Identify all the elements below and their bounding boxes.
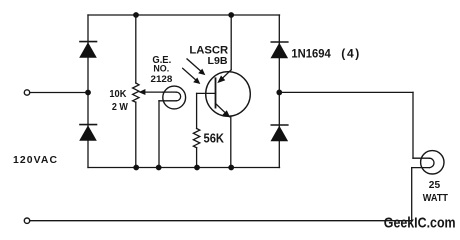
- junction dot LASCR cathode bottom: [228, 165, 234, 171]
- svg-text:56K: 56K: [204, 132, 225, 146]
- wire top DC rail: [88, 14, 280, 16]
- label 10K 2W: [109, 88, 128, 113]
- node AC line 1 junction: [85, 90, 91, 96]
- lamp DS2 25 WATT: [412, 151, 444, 174]
- wire lamp DS2 to bottom rail: [411, 168, 413, 221]
- svg-text:25: 25: [429, 180, 441, 191]
- diode D1 1N1694 top-left: [79, 42, 97, 58]
- svg-text:L9B: L9B: [208, 56, 228, 67]
- potentiometer wiper arrow: [139, 89, 164, 95]
- diode D4 1N1694 bottom-right: [271, 125, 289, 141]
- junction dot potentiometer bottom: [133, 165, 139, 171]
- wire potentiometer top: [135, 15, 137, 83]
- wire LASCR cathode down: [230, 117, 232, 168]
- diode D2 1N1694 bottom-left: [79, 125, 97, 141]
- svg-text:2 W: 2 W: [112, 101, 128, 113]
- wire right branch: [278, 15, 280, 168]
- label 1N1694 (4): [291, 46, 359, 60]
- wire left branch: [87, 15, 89, 168]
- svg-text:1N1694: 1N1694: [291, 46, 331, 60]
- svg-text:(4): (4): [341, 46, 359, 60]
- light arrow 1: [187, 59, 205, 75]
- wire LASCR gate lead: [197, 92, 216, 94]
- wire lamp DS1 return: [158, 101, 160, 168]
- lamp DS1 G.E. No. 2128: [159, 86, 186, 109]
- junction dot potentiometer top: [133, 12, 139, 18]
- potentiometer R1 10K 2W body: [133, 83, 139, 102]
- svg-text:GeekIC.com: GeekIC.com: [384, 215, 456, 232]
- junction dot LASCR anode top: [228, 12, 234, 18]
- label 25 WATT: [423, 180, 449, 204]
- svg-text:WATT: WATT: [423, 193, 449, 204]
- resistor R2 56K body: [193, 129, 199, 148]
- label LASCR L9B: [189, 45, 228, 67]
- svg-text:120VAC: 120VAC: [13, 155, 57, 166]
- terminal AC line 1: [24, 90, 29, 95]
- junction dot 56K bottom: [194, 165, 200, 171]
- wire load feed vertical: [412, 92, 414, 158]
- node AC line 2 junction: [276, 90, 282, 96]
- junction dot lamp DS1 return: [156, 165, 162, 171]
- LASCR Q1 L9B: [206, 70, 251, 118]
- svg-text:10K: 10K: [109, 88, 126, 100]
- wire potentiometer bottom: [135, 102, 137, 167]
- svg-text:LASCR: LASCR: [189, 45, 228, 57]
- wire load feed horizontal: [279, 91, 413, 93]
- diode D3 1N1694 top-right: [271, 42, 289, 58]
- wire LASCR anode feed: [230, 15, 232, 70]
- wire bottom DC rail: [88, 167, 280, 169]
- terminal AC line 2: [24, 218, 29, 223]
- wire 56K resistor bottom: [196, 148, 198, 168]
- light arrow 2: [183, 68, 201, 84]
- label G.E. NO. 2128: [151, 55, 173, 84]
- svg-text:2128: 2128: [151, 73, 173, 84]
- wire AC line 1 lead: [30, 92, 88, 94]
- wire gate to 56K resistor: [196, 93, 198, 128]
- wire bottom AC rail: [30, 220, 412, 222]
